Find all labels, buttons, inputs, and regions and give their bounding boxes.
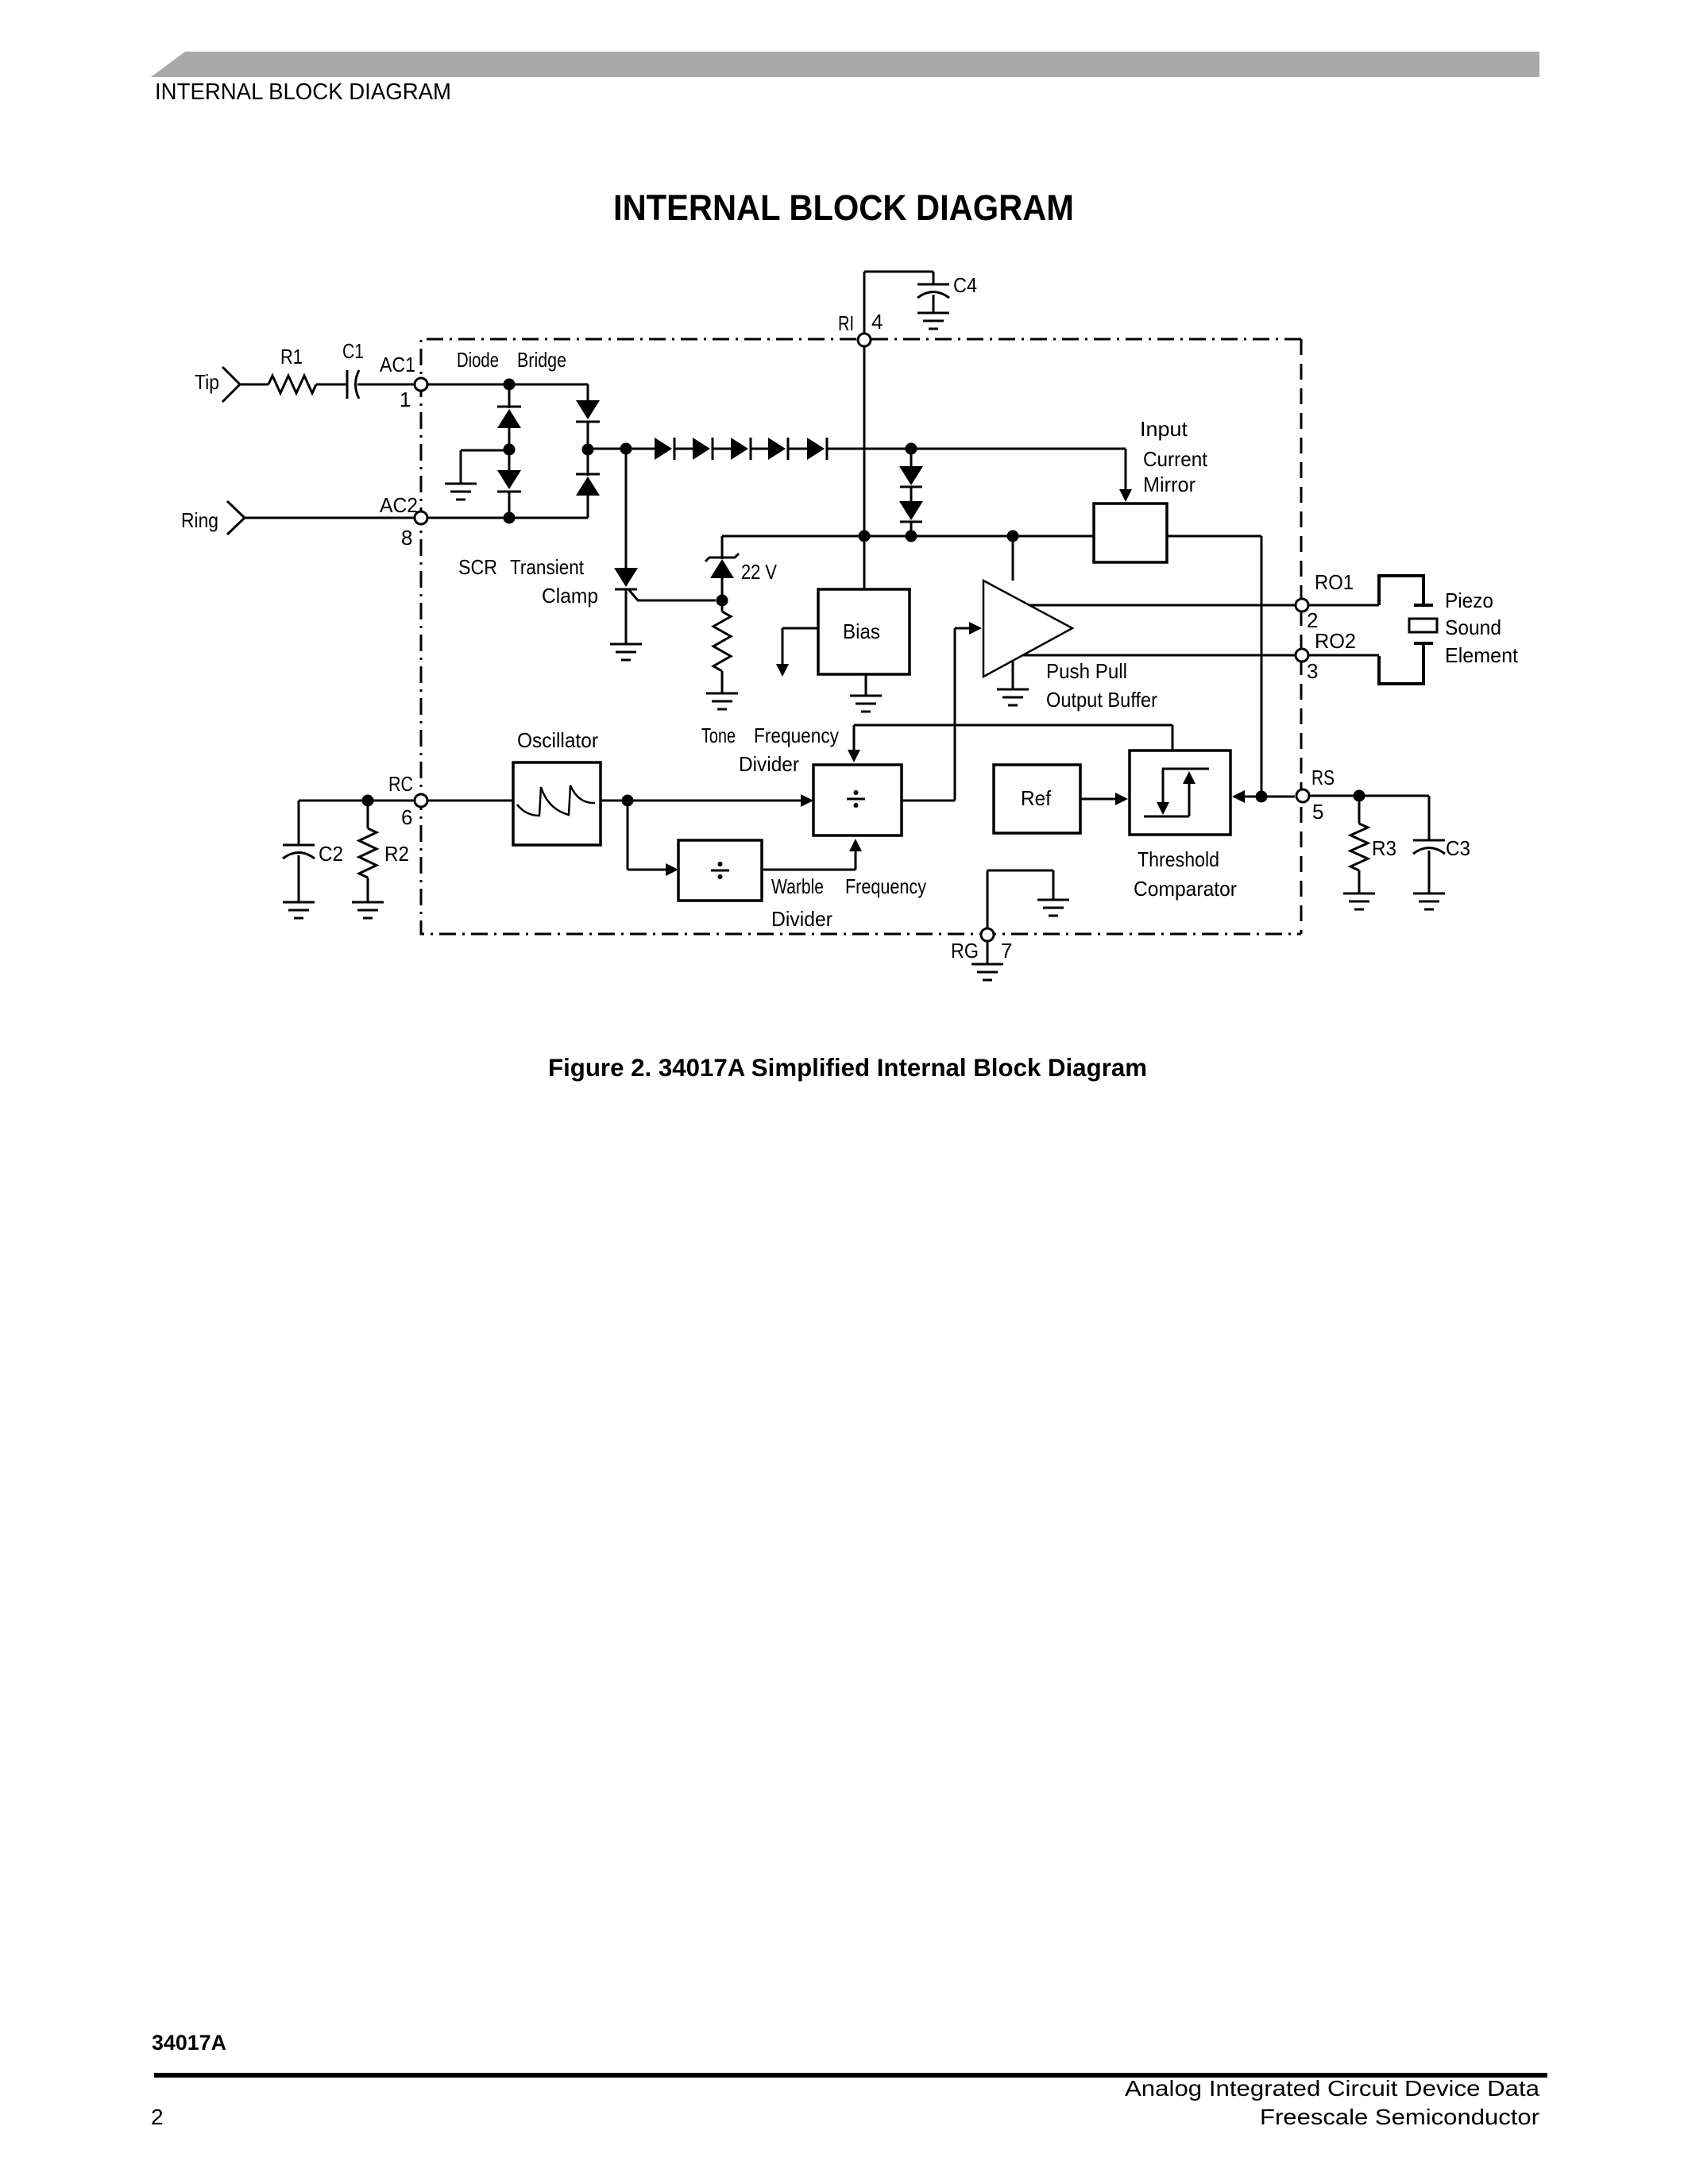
pin RC bbox=[415, 794, 427, 807]
footer page number bbox=[151, 2105, 164, 2129]
label Diode Bridge bbox=[457, 348, 566, 372]
junction dot rail at diode pair bbox=[906, 531, 917, 542]
zener diode Z1 22V bbox=[705, 554, 739, 578]
label Element bbox=[1445, 643, 1519, 667]
ground R3 bbox=[1343, 893, 1375, 909]
wire diode pair stubs bbox=[910, 449, 913, 536]
wire AC2 internal bbox=[427, 517, 588, 519]
pin AC1 label bbox=[380, 353, 415, 376]
junction dot zener-SCR gate bbox=[717, 595, 728, 607]
svg-text:INTERNAL BLOCK DIAGRAM: INTERNAL BLOCK DIAGRAM bbox=[613, 187, 1074, 228]
ground SCR bbox=[610, 644, 642, 660]
wire RI up bbox=[863, 272, 866, 334]
wire Tip to R1 bbox=[240, 384, 268, 386]
resistor R1 bbox=[268, 376, 316, 393]
pin RG label bbox=[951, 939, 979, 963]
svg-text:R3: R3 bbox=[1372, 836, 1396, 860]
main title bbox=[613, 187, 1074, 228]
figure caption bbox=[548, 1053, 1147, 1082]
diode pair D10 bbox=[899, 466, 923, 487]
label Clamp bbox=[542, 584, 598, 608]
svg-text:Bias: Bias bbox=[843, 619, 880, 643]
svg-text:Ref: Ref bbox=[1021, 786, 1052, 810]
svg-text:Output Buffer: Output Buffer bbox=[1046, 688, 1157, 712]
svg-text:5: 5 bbox=[1312, 800, 1323, 824]
label Sound bbox=[1445, 615, 1501, 639]
junction dot RC external bbox=[362, 795, 374, 807]
wire to warble divider bbox=[628, 801, 678, 876]
svg-text:Bridge: Bridge bbox=[517, 348, 566, 372]
svg-text:C4: C4 bbox=[953, 273, 977, 297]
svg-text:Frequency: Frequency bbox=[845, 874, 926, 898]
capacitor C1 bbox=[347, 370, 359, 399]
svg-text:AC2: AC2 bbox=[380, 493, 418, 517]
svg-text:RG: RG bbox=[951, 939, 979, 963]
wire SCR cathode bbox=[625, 589, 628, 643]
svg-text:Sound: Sound bbox=[1445, 615, 1501, 639]
ground R2 bbox=[352, 902, 384, 918]
wire mirror out right bbox=[1167, 536, 1261, 796]
label Push Pull bbox=[1046, 659, 1127, 683]
wire supply rail bbox=[722, 535, 1094, 538]
SCR gate bbox=[629, 590, 716, 600]
svg-text:34017A: 34017A bbox=[152, 2031, 226, 2055]
wire resistor to ground bbox=[721, 671, 724, 693]
wire Ring to AC2 bbox=[245, 517, 414, 519]
junction dot oscillator out bbox=[622, 795, 634, 807]
diode chain D6 bbox=[693, 438, 713, 460]
label Piezo bbox=[1445, 588, 1493, 612]
svg-text:Divider: Divider bbox=[771, 907, 832, 931]
divide symbol tone bbox=[847, 790, 865, 808]
wire chain to mirror bbox=[827, 448, 1126, 450]
label C2 bbox=[319, 842, 343, 866]
pin AC2 number 8 bbox=[401, 526, 412, 550]
diode chain D9 bbox=[807, 438, 827, 460]
svg-text:Figure 2. 34017A Simplified In: Figure 2. 34017A Simplified Internal Blo… bbox=[548, 1053, 1147, 1082]
wire threshold to tone enable bbox=[848, 725, 1172, 762]
pin RI bbox=[858, 334, 871, 346]
label Input Current Mirror bbox=[1140, 417, 1208, 496]
pin RG bbox=[981, 928, 994, 941]
pin RS label bbox=[1311, 766, 1335, 789]
svg-text:Freescale Semiconductor: Freescale Semiconductor bbox=[1260, 2105, 1539, 2129]
block Bias box bbox=[818, 589, 910, 674]
svg-text:Ring: Ring bbox=[181, 508, 218, 532]
node Ring terminal bbox=[227, 501, 245, 534]
pin RO2 label bbox=[1315, 629, 1356, 653]
wire bridge left lower bbox=[508, 492, 511, 518]
ground buffer bbox=[997, 662, 1029, 705]
capacitor C3 bbox=[1413, 796, 1445, 893]
wire AC1 internal bbox=[427, 384, 588, 386]
piezo sound element bbox=[1379, 576, 1437, 684]
wire bridge right mid bbox=[587, 422, 589, 476]
wire RS external bbox=[1310, 795, 1429, 797]
diode chain D5 bbox=[655, 438, 674, 460]
wire RO2 external bbox=[1309, 654, 1379, 657]
block Oscillator box bbox=[513, 762, 601, 845]
ground C3 bbox=[1413, 893, 1445, 909]
pin RO2 bbox=[1296, 649, 1308, 662]
junction dot RS internal bbox=[1256, 791, 1268, 803]
svg-text:C1: C1 bbox=[342, 339, 364, 363]
block Ref box bbox=[994, 765, 1080, 833]
ground C2 bbox=[283, 902, 315, 918]
ground Bias bbox=[850, 674, 882, 712]
wire buffer input arrow bbox=[955, 622, 982, 635]
svg-text:1: 1 bbox=[400, 388, 411, 411]
capacitor C2 bbox=[283, 801, 315, 901]
wire tone out to buffer bbox=[902, 628, 955, 801]
label R3 bbox=[1372, 836, 1396, 860]
header text bbox=[155, 79, 451, 105]
diode bridge D4 (up, right-bottom) bbox=[576, 474, 600, 496]
svg-text:22 V: 22 V bbox=[741, 560, 778, 584]
junction dot SCR tap bbox=[620, 443, 632, 455]
pin RO1 number 2 bbox=[1307, 608, 1318, 632]
pin AC2 label bbox=[380, 493, 418, 517]
footer right line 2 bbox=[1260, 2105, 1539, 2129]
label C1 bbox=[342, 339, 364, 363]
svg-text:Mirror: Mirror bbox=[1143, 473, 1196, 496]
wire RC external bbox=[299, 800, 414, 802]
pin RS bbox=[1296, 789, 1309, 802]
svg-text:Transient: Transient bbox=[510, 555, 585, 579]
wire bridge to diode chain bbox=[588, 448, 655, 450]
svg-text:Piezo: Piezo bbox=[1445, 588, 1493, 612]
pin RS number 5 bbox=[1312, 800, 1323, 824]
svg-text:Current: Current bbox=[1143, 447, 1208, 471]
label R1 bbox=[280, 345, 303, 369]
resistor below zener bbox=[713, 612, 731, 671]
ground RG internal bbox=[1037, 870, 1069, 916]
block Threshold Comparator box bbox=[1130, 751, 1230, 835]
footer part number bbox=[152, 2031, 226, 2055]
svg-text:Diode: Diode bbox=[457, 348, 499, 372]
wire to tone divider bbox=[628, 794, 813, 807]
node Tip label bbox=[195, 370, 219, 394]
svg-text:Divider: Divider bbox=[739, 752, 799, 776]
label 22 V bbox=[741, 560, 778, 584]
svg-text:Comparator: Comparator bbox=[1134, 877, 1237, 901]
junction dot RS external bbox=[1354, 790, 1365, 802]
svg-text:Frequency: Frequency bbox=[754, 723, 839, 747]
svg-text:Push Pull: Push Pull bbox=[1046, 659, 1127, 683]
svg-text:Tone: Tone bbox=[701, 723, 736, 747]
diode bridge D1 (up, left-top) bbox=[497, 407, 521, 428]
svg-text:RO1: RO1 bbox=[1315, 570, 1354, 594]
label R2 bbox=[384, 842, 409, 866]
wire chain 2 bbox=[713, 448, 731, 450]
wire RS to threshold bbox=[1232, 790, 1295, 803]
junction dot bridge right mid bbox=[582, 444, 594, 456]
svg-text:RC: RC bbox=[388, 772, 413, 796]
wire SCR anode bbox=[625, 449, 628, 569]
pin AC1 number 1 bbox=[400, 388, 411, 411]
wire between diode pair bbox=[910, 487, 913, 501]
junction dot bridge left mid bbox=[504, 444, 516, 456]
hysteresis symbol bbox=[1144, 769, 1209, 816]
svg-text:6: 6 bbox=[401, 805, 412, 829]
wire into current mirror top bbox=[1119, 449, 1132, 502]
label Warble Divider bbox=[771, 907, 832, 931]
wire RO1 external bbox=[1309, 604, 1379, 607]
wire chain 4 bbox=[788, 448, 807, 450]
svg-text:RI: RI bbox=[838, 311, 854, 335]
svg-text:4: 4 bbox=[871, 310, 883, 334]
svg-text:Clamp: Clamp bbox=[542, 584, 598, 608]
pin RO2 number 3 bbox=[1307, 659, 1318, 683]
svg-text:C2: C2 bbox=[319, 842, 343, 866]
svg-text:3: 3 bbox=[1307, 659, 1318, 683]
diode bridge D3 (down, right-top) bbox=[576, 400, 600, 422]
SCR Q1 bbox=[614, 568, 638, 589]
wire R1 to C1 bbox=[316, 384, 346, 386]
wire C1 to AC1 bbox=[357, 384, 414, 386]
svg-text:2: 2 bbox=[151, 2105, 164, 2129]
wire RO1 bbox=[1029, 604, 1295, 607]
svg-text:AC1: AC1 bbox=[380, 353, 415, 376]
diode pair D11 bbox=[899, 501, 923, 522]
svg-text:Input: Input bbox=[1140, 417, 1188, 441]
svg-text:8: 8 bbox=[401, 526, 412, 550]
pin RO1 label bbox=[1315, 570, 1354, 594]
wire bridge left mid bbox=[508, 428, 511, 470]
svg-text:Warble: Warble bbox=[771, 874, 824, 898]
footer right line 1 bbox=[1125, 2076, 1539, 2101]
label Comparator bbox=[1134, 877, 1237, 901]
wire RO2 bbox=[1023, 654, 1295, 657]
divide symbol warble bbox=[711, 862, 729, 879]
banner bbox=[151, 52, 1539, 77]
ground below zener resistor bbox=[706, 693, 738, 709]
wire zener to junction bbox=[721, 578, 724, 612]
junction dot rail at buffer bbox=[1007, 531, 1019, 542]
label C4 bbox=[953, 273, 977, 297]
svg-text:R2: R2 bbox=[384, 842, 409, 866]
svg-text:Oscillator: Oscillator bbox=[517, 728, 598, 752]
resistor R3 bbox=[1350, 796, 1368, 893]
node Tip terminal bbox=[222, 367, 240, 402]
pin RO1 bbox=[1296, 599, 1308, 612]
pin RG number 7 bbox=[1001, 939, 1012, 963]
label Oscillator bbox=[517, 728, 598, 752]
capacitor C4 bbox=[917, 272, 949, 313]
ground RG external bbox=[971, 942, 1003, 980]
pin RI label bbox=[838, 311, 854, 335]
wire Ref out bbox=[1080, 793, 1128, 805]
label Bias bbox=[843, 619, 880, 643]
label C3 bbox=[1446, 836, 1470, 860]
node Ring label bbox=[181, 508, 218, 532]
resistor R2 bbox=[359, 801, 377, 901]
block Tone Frequency Divider box bbox=[813, 765, 902, 835]
label Warble Frequency bbox=[845, 874, 926, 898]
label Warble bbox=[771, 874, 824, 898]
pin RI number 4 bbox=[871, 310, 883, 334]
svg-text:RO2: RO2 bbox=[1315, 629, 1356, 653]
svg-text:SCR: SCR bbox=[458, 555, 497, 579]
wire chain 1 bbox=[674, 448, 693, 450]
junction dot bridge top-left bbox=[504, 379, 516, 391]
pin RC label bbox=[388, 772, 413, 796]
junction dot chain at supply branch bbox=[906, 443, 917, 455]
op-amp U1 push-pull output buffer bbox=[983, 581, 1072, 677]
wire oscillator out bbox=[601, 800, 628, 802]
wire RC to oscillator bbox=[428, 800, 513, 802]
diode bridge D2 (down, left-bottom) bbox=[497, 470, 521, 492]
diode chain D7 bbox=[731, 438, 751, 460]
label Threshold bbox=[1138, 847, 1219, 871]
label Tone Divider bbox=[739, 752, 799, 776]
wire bridge right upper bbox=[587, 384, 589, 402]
ground bridge bbox=[445, 450, 509, 500]
svg-text:Tip: Tip bbox=[195, 370, 219, 394]
block Warble Divider box bbox=[678, 840, 762, 901]
wire warble to tone bbox=[762, 839, 862, 870]
svg-text:Element: Element bbox=[1445, 643, 1519, 667]
wire RI top to C4 bbox=[864, 271, 933, 273]
ground C4 bbox=[917, 313, 949, 329]
wire Bias left arrow bbox=[776, 628, 818, 677]
label Tone Frequency bbox=[701, 723, 839, 747]
footer rule bbox=[154, 2073, 1547, 2078]
wire bridge left upper bbox=[508, 384, 511, 408]
svg-text:Threshold: Threshold bbox=[1138, 847, 1219, 871]
svg-text:C3: C3 bbox=[1446, 836, 1470, 860]
block Input Current Mirror box bbox=[1094, 504, 1167, 562]
oscillator sawtooth bbox=[517, 785, 595, 816]
pin RC number 6 bbox=[401, 805, 412, 829]
svg-text:RS: RS bbox=[1311, 766, 1335, 789]
label Ref bbox=[1021, 786, 1052, 810]
diode chain D8 bbox=[768, 438, 788, 460]
svg-text:7: 7 bbox=[1001, 939, 1012, 963]
wire RG internal bbox=[987, 870, 1053, 928]
wire RI down to Bias bbox=[863, 346, 866, 589]
junction dot rail at RI bbox=[859, 531, 871, 542]
pin AC2 bbox=[415, 511, 427, 524]
label SCR Transient bbox=[458, 555, 585, 579]
svg-text:R1: R1 bbox=[280, 345, 303, 369]
wire bridge right lower bbox=[587, 496, 589, 518]
svg-text:Analog Integrated Circuit Devi: Analog Integrated Circuit Device Data bbox=[1125, 2076, 1539, 2101]
IC boundary (dash-dot box) bbox=[421, 339, 1301, 934]
wire rail to zener bbox=[721, 536, 724, 559]
svg-text:INTERNAL BLOCK DIAGRAM: INTERNAL BLOCK DIAGRAM bbox=[155, 79, 451, 105]
wire buffer supply bbox=[1012, 536, 1014, 581]
wire chain 3 bbox=[751, 448, 768, 450]
label Output Buffer bbox=[1046, 688, 1157, 712]
pin AC1 bbox=[415, 378, 427, 391]
junction dot bridge bottom bbox=[504, 512, 516, 524]
